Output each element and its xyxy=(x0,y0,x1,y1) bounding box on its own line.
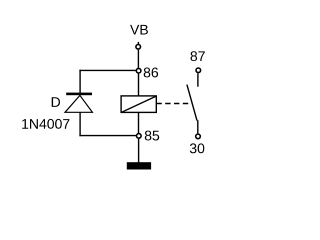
wire left branch lower xyxy=(79,112,81,136)
wire stub above VB terminal xyxy=(137,42,139,44)
dashed actuation link xyxy=(156,103,188,105)
relay coil diagonal xyxy=(122,96,157,112)
terminal 30 xyxy=(196,134,201,139)
wire node 86 to relay coil xyxy=(138,73,140,95)
node VB label xyxy=(130,25,148,35)
terminal VB xyxy=(136,45,141,50)
terminal 85 xyxy=(137,134,142,139)
pin label 87 xyxy=(191,51,205,61)
terminal 87 xyxy=(196,68,201,73)
diode D triangle xyxy=(65,95,92,112)
wire left branch upper xyxy=(79,70,81,93)
wire top horizontal to diode branch xyxy=(79,69,135,71)
pin label 85 xyxy=(145,131,159,141)
wire relay coil to node 85 xyxy=(138,113,140,133)
value 1N4007 xyxy=(22,119,69,129)
ground xyxy=(127,162,151,169)
wire node 85 to ground xyxy=(138,139,140,163)
wire terminal 87 stub xyxy=(197,73,199,86)
terminal 86 xyxy=(136,68,141,73)
wire bottom horizontal to node 85 xyxy=(79,135,136,137)
pin label 86 xyxy=(144,68,158,78)
wire terminal 30 stub xyxy=(197,120,199,133)
pin label 30 xyxy=(190,143,205,153)
label D xyxy=(52,97,60,107)
switch blade xyxy=(187,85,197,121)
diode D cathode bar xyxy=(66,93,92,96)
wire VB to node 86 xyxy=(137,50,139,68)
relay coil body xyxy=(121,96,156,113)
